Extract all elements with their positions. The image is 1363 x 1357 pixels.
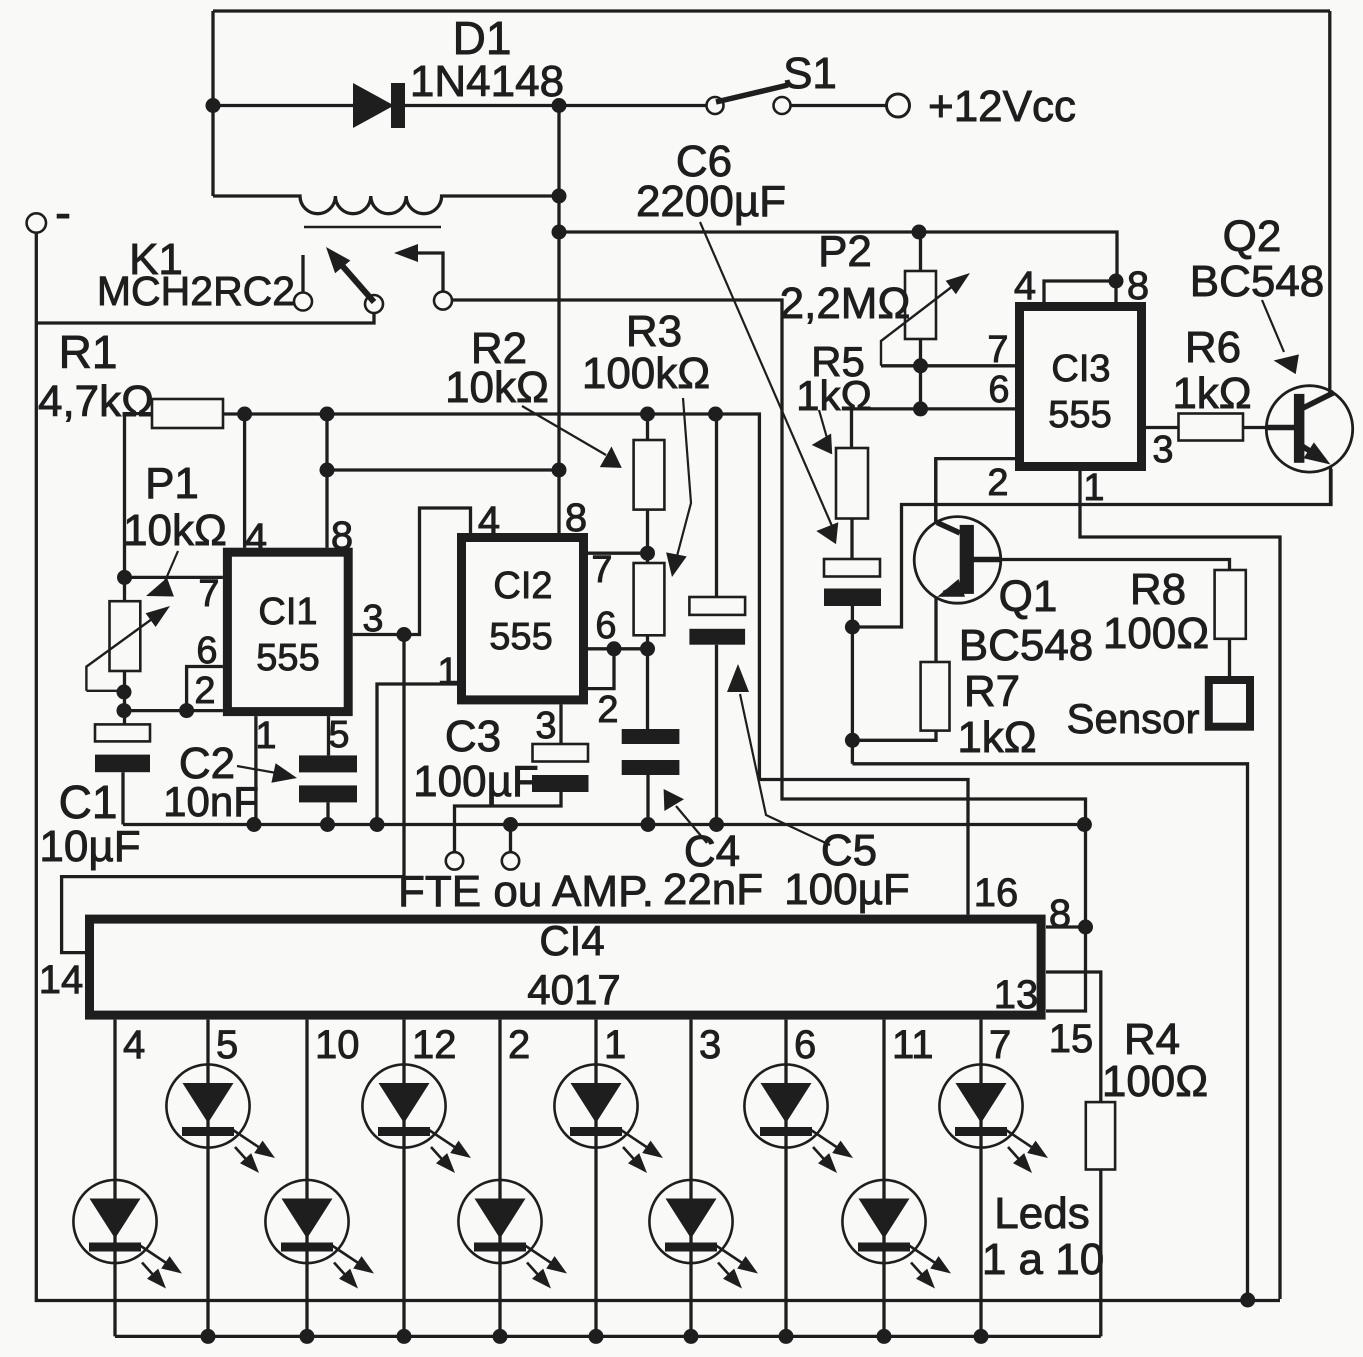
pin 2 of CI2 (597, 689, 618, 731)
pin 6 of CI4 (794, 1023, 816, 1067)
label C3 (445, 712, 501, 761)
node C6 feed junction (552, 225, 567, 240)
wire CI1 pin 8 stub (325, 414, 328, 548)
svg-text:2: 2 (194, 670, 215, 712)
svg-text:CI2: CI2 (493, 565, 552, 607)
wire CI3 pin 7 line (881, 364, 1019, 367)
relay K1 NC contact stub (301, 255, 304, 293)
svg-text:7: 7 (591, 549, 612, 591)
svg-text:10kΩ: 10kΩ (123, 506, 227, 555)
svg-text:FTE ou AMP.: FTE ou AMP. (398, 867, 654, 916)
wire S1 to +12Vcc terminal (791, 104, 887, 107)
svg-text:1 a 10: 1 a 10 (982, 1235, 1104, 1284)
node CI3 pin6 junction (913, 401, 928, 416)
annotation arrow Q2 label to body (1262, 300, 1299, 374)
LED 5 (output 2) (458, 1180, 567, 1289)
svg-text:1kΩ: 1kΩ (957, 713, 1036, 762)
relay K1 NO contact stub with arrow (394, 244, 443, 292)
potentiometer P1 (110, 601, 141, 671)
pin 7 of CI4 (989, 1023, 1011, 1067)
wire vertical bus from D1 cathode down to CI2 pin 8 (557, 106, 560, 534)
label Sensor (1066, 695, 1199, 742)
pin 8 of CI1 (331, 514, 353, 558)
node LED cathode bus junction (779, 1329, 794, 1344)
label CI4 (539, 917, 604, 964)
capacitor C6 plus plate (824, 559, 880, 577)
label S1 (783, 49, 837, 98)
label C6 (676, 137, 732, 186)
wire R8 to sensor (1228, 639, 1231, 676)
LED 6 (output 1) (554, 1064, 663, 1173)
wire R6 to Q2 base (1243, 426, 1294, 429)
wire CI3 pin 2 to Q1 collector (936, 459, 1015, 522)
label Q1 BC548 (959, 621, 1094, 670)
potentiometer P2 (905, 271, 936, 339)
label R4 (1124, 1015, 1180, 1064)
wire C3 bottom to FTE left terminal (455, 792, 562, 852)
resistor R7 (921, 662, 950, 731)
svg-text:C1: C1 (59, 776, 118, 828)
svg-text:1kΩ: 1kΩ (796, 372, 872, 419)
wire sensor net to bottom bus (852, 764, 1247, 1300)
LED 1 (output 4) (73, 1180, 182, 1289)
label Q2 BC548 (1190, 257, 1325, 306)
wire relay common to minus rail (36, 313, 374, 323)
node ground bus to CI4 pin8 junction (1077, 817, 1092, 832)
svg-text:4,7kΩ: 4,7kΩ (38, 377, 154, 426)
wire left drop from top rail to D1 anode and relay coil (211, 11, 214, 196)
capacitor C2 plate 2 (299, 785, 357, 802)
transistor Q1 (914, 517, 1001, 604)
capacitor C5 plus plate (689, 597, 745, 615)
LED 2 (output 5) (166, 1064, 275, 1173)
svg-text:555: 555 (489, 616, 552, 658)
svg-text:100Ω: 100Ω (1102, 1057, 1208, 1106)
pin 7 of CI1 (198, 573, 219, 615)
wire C5 top stub (715, 414, 718, 597)
label minus sign (55, 187, 71, 240)
pin 10 of CI4 (315, 1023, 360, 1067)
wire wiper L to bottom node (86, 690, 124, 692)
annotation arrow C6 label to capacitor (700, 222, 838, 544)
pin 1 of CI2 (437, 651, 458, 693)
svg-text:4: 4 (245, 516, 267, 560)
label C4 (684, 827, 740, 876)
node 470-line right junction (552, 463, 567, 478)
pin 6 of CI1 (196, 630, 217, 672)
wire Q1 collector up (934, 459, 937, 522)
svg-text:P1: P1 (145, 459, 199, 508)
wire CI2 pin 1 to ground (377, 684, 457, 825)
pin 8 of CI4 (1049, 892, 1071, 936)
svg-text:R6: R6 (1185, 323, 1241, 372)
node C5 ground junction (709, 817, 724, 832)
pin 15 of CI4 (1049, 1017, 1094, 1061)
label R1 (59, 326, 118, 378)
wire Q2 collector to top rail (1328, 11, 1331, 393)
node LED cathode bus junction (201, 1329, 216, 1344)
label D1 (453, 12, 512, 64)
wire CI4 output pin 10 column (305, 1020, 308, 1337)
wire R2 bottom to R3 top (646, 510, 649, 563)
resistor R4 (1086, 1102, 1115, 1169)
wire P1 bottom to C1 and pins 6/2 (123, 671, 126, 724)
label Q2 (1223, 212, 1282, 261)
svg-text:100µF: 100µF (413, 757, 539, 806)
label R2 value 10kΩ (445, 363, 549, 412)
wire CI3 pin 4 tie to pin 8 (1044, 281, 1116, 302)
wire CI4 output pin 6 column (784, 1020, 787, 1337)
node P2 top junction (912, 225, 927, 240)
label CI3 (1051, 348, 1110, 390)
annotation arrow C5 label to body (727, 664, 830, 845)
capacitor C1 plus plate (95, 724, 150, 741)
wire C1 bottom to ground bus (121, 772, 124, 824)
capacitor C2 plate 1 (299, 755, 357, 772)
label K1 (129, 235, 183, 284)
wire CI1 pin 1 to ground (254, 716, 257, 824)
wire CI3 pin 8 stub (1114, 281, 1117, 302)
op-amp-timer CI1 555 box (227, 552, 348, 711)
label CI3 555 (1048, 394, 1111, 436)
svg-text:1kΩ: 1kΩ (1172, 369, 1251, 418)
pin 3 of CI2 (535, 705, 556, 747)
wire relay NO contact to ground bus / CI4 pin 8 (452, 300, 1086, 927)
wire C6-feed line to CI3 pins 4-8 (559, 232, 1117, 281)
wire FTE right to ground (509, 825, 512, 853)
label CI2 555 (489, 616, 552, 658)
svg-text:1: 1 (255, 715, 276, 757)
pin 8 of CI3 (1127, 264, 1149, 308)
svg-text:16: 16 (974, 871, 1019, 915)
wire CI1 pin 4 stub (243, 414, 246, 548)
svg-text:CI3: CI3 (1051, 348, 1110, 390)
node R2/R3/CI2-pin7 junction (640, 546, 655, 561)
resistor R2 (634, 440, 665, 510)
svg-text:8: 8 (331, 514, 353, 558)
svg-text:555: 555 (256, 637, 319, 679)
wire R4 bottom to LED bus (1099, 1170, 1102, 1337)
svg-text:10kΩ: 10kΩ (445, 363, 549, 412)
svg-text:5: 5 (216, 1023, 238, 1067)
wire Q1 base to R8 (974, 560, 1230, 571)
label R6 value 1kΩ (1172, 369, 1251, 418)
pin 7 of CI2 (591, 549, 612, 591)
wire P2 bottom stub (919, 339, 922, 409)
wire CI4 output pin 2 column (498, 1020, 501, 1337)
label Leds 1 a 10 (982, 1235, 1104, 1284)
node P1 bottom / pin2 junction (117, 703, 132, 718)
wire CI4 pin 15 to R4 (1046, 972, 1101, 1102)
svg-text:100kΩ: 100kΩ (582, 349, 710, 398)
svg-text:C3: C3 (445, 712, 501, 761)
svg-text:1: 1 (1083, 467, 1104, 509)
svg-text:6: 6 (595, 605, 616, 647)
pin 3 of CI4 (699, 1023, 721, 1067)
wire CI4 pin 8 stub (1046, 925, 1086, 928)
capacitor C3 minus plate (532, 775, 589, 792)
LED 7 (output 3) (649, 1180, 758, 1289)
node CI3 pin 8 junction (1109, 274, 1124, 289)
svg-text:R1: R1 (59, 326, 118, 378)
label C1 (59, 776, 118, 828)
switch S1 lever (716, 85, 788, 102)
pin 6 of CI3 (988, 369, 1009, 411)
resistor R8 (1215, 570, 1246, 639)
annotation arrow P1 label to body (146, 551, 178, 597)
resistor R6 (1179, 414, 1244, 441)
svg-text:100µF: 100µF (784, 865, 910, 914)
wire C5 bottom to ground (715, 645, 718, 825)
svg-text:7: 7 (198, 573, 219, 615)
wire top +12V rail (213, 9, 1330, 12)
pin 3 of CI1 (362, 598, 383, 640)
svg-text:1N4148: 1N4148 (410, 57, 564, 106)
label R3 value 100kΩ (582, 349, 710, 398)
label P2 (818, 227, 872, 276)
svg-text:6: 6 (988, 369, 1009, 411)
svg-text:8: 8 (1049, 892, 1071, 936)
capacitor C5 minus plate (689, 629, 745, 645)
LED 4 (output 12) (362, 1064, 471, 1173)
svg-text:4: 4 (1014, 264, 1036, 308)
svg-text:2: 2 (597, 689, 618, 731)
label C4 value 22nF (663, 865, 763, 914)
label P1 (145, 459, 199, 508)
wire D1 net from anode junction to S1 (213, 104, 707, 107)
node LED cathode bus junction (300, 1329, 315, 1344)
svg-text:Q1: Q1 (999, 572, 1058, 621)
pin 2 of CI3 (987, 462, 1008, 504)
svg-text:7: 7 (989, 1023, 1011, 1067)
switch S1 left contact (707, 97, 724, 114)
label R5 (811, 338, 865, 385)
node coil right junction (552, 189, 567, 204)
capacitor C3 plus plate (533, 744, 589, 762)
wire pins 6-2 of CI1 to P1 bottom (124, 709, 223, 712)
wire CI1 pin 7 to P1 top node (125, 576, 223, 579)
node CI1 pin3 junction (397, 627, 412, 642)
svg-text:10: 10 (315, 1023, 360, 1067)
svg-text:2: 2 (987, 462, 1008, 504)
label P1 value 10kΩ (123, 506, 227, 555)
node C6 bottom junction (845, 620, 860, 635)
svg-text:3: 3 (535, 705, 556, 747)
label C1 value 10µF (39, 822, 140, 871)
node CI4 pin 8 junction (1078, 920, 1093, 935)
svg-text:MCH2RC2: MCH2RC2 (97, 268, 295, 314)
wire CI2 pin 3 to C3 (559, 704, 562, 744)
label R4 value 100Ω (1102, 1057, 1208, 1106)
node R7 bottom junction (845, 733, 860, 748)
svg-text:P2: P2 (818, 227, 872, 276)
wire C6 bottom to Q2 emitter line (852, 469, 1331, 627)
relay K1 NC contact (294, 293, 312, 311)
label R8 (1130, 565, 1186, 614)
svg-text:BC548: BC548 (1190, 257, 1325, 306)
node CI1 pin1 ground junction (247, 817, 262, 832)
svg-text:10nF: 10nF (163, 778, 259, 825)
pin 4 of CI1 (245, 516, 267, 560)
node CI1 pin6 jog junction (179, 703, 194, 718)
pin 14 of CI4 (39, 958, 84, 1002)
diode D1 (353, 83, 405, 128)
svg-text:8: 8 (1127, 264, 1149, 308)
node CI1 pin8 rail junction (320, 407, 335, 422)
label Q1 (999, 572, 1058, 621)
capacitor C6 minus plate (824, 589, 881, 607)
node LED cathode bus junction (974, 1329, 989, 1344)
label CI4 4017 (527, 966, 620, 1013)
wire minus rail left border down to bottom bus (36, 233, 1280, 1301)
label +12Vcc (928, 82, 1076, 131)
label C3 value 100µF (413, 757, 539, 806)
label R5 value 1kΩ (796, 372, 872, 419)
svg-text:Q2: Q2 (1223, 212, 1282, 261)
svg-text:1: 1 (437, 651, 458, 693)
svg-text:R7: R7 (964, 667, 1020, 716)
pin 6 of CI2 (595, 605, 616, 647)
label R7 (964, 667, 1020, 716)
counter CI4 4017 box (90, 919, 1042, 1015)
node FTE right ground junction (503, 817, 518, 832)
pin 1 of CI1 (255, 715, 276, 757)
pin 5 of CI1 (328, 714, 349, 756)
svg-text:12: 12 (412, 1023, 457, 1067)
pin 2 of CI4 (508, 1023, 530, 1067)
label R1 value 4,7kΩ (38, 377, 154, 426)
pin 4 of CI3 (1014, 264, 1036, 308)
svg-text:2: 2 (508, 1023, 530, 1067)
potentiometer P2 wiper arrow (881, 273, 970, 366)
LED 9 (output 11) (842, 1180, 951, 1289)
terminal minus (27, 213, 46, 232)
switch S1 right contact (774, 97, 791, 114)
wire CI2 pin 2 jog (588, 649, 614, 689)
svg-text:S1: S1 (783, 49, 837, 98)
pin 8 of CI2 (565, 496, 587, 540)
node P2 bottom / CI3 pin7 junction (913, 358, 928, 373)
node C4 ground junction (641, 817, 656, 832)
label P2 value 2,2MΩ (780, 279, 911, 328)
wire 470 cross line to CI2 pin8 bus (327, 468, 559, 471)
pin 16 of CI4 (974, 871, 1019, 915)
pin 2 of CI1 (194, 670, 215, 712)
svg-text:2200µF: 2200µF (636, 177, 786, 226)
wire R3 bottom to C4 (646, 635, 649, 729)
wire pin3 jog up to CI2 pin 4 (404, 508, 471, 635)
label C5 (821, 826, 877, 875)
wire CI4 output pin 7 column (979, 1020, 982, 1337)
svg-text:22nF: 22nF (663, 865, 763, 914)
relay K1 armature lever (326, 247, 374, 302)
annotation arrow C4 label to body (664, 789, 707, 843)
svg-text:4017: 4017 (527, 966, 620, 1013)
label C2 value 10nF (163, 778, 259, 825)
annotation arrow R3 label to body (666, 398, 691, 577)
svg-text:10µF: 10µF (39, 822, 140, 871)
label C2 (179, 739, 235, 788)
svg-text:100Ω: 100Ω (1103, 609, 1209, 658)
wire CI4 output pin 11 column (882, 1020, 885, 1337)
node LED cathode bus junction (493, 1329, 508, 1344)
svg-text:14: 14 (39, 958, 84, 1002)
op-amp-timer CI3 555 box (1020, 307, 1142, 467)
label R6 (1185, 323, 1241, 372)
node LED cathode bus junction (589, 1329, 604, 1344)
pin 3 of CI3 (1152, 429, 1173, 471)
node R3 bottom / pin6 junction (640, 641, 655, 656)
wire C6 bottom down to R7 bottom (851, 627, 854, 764)
label MCH2RC2 (97, 268, 295, 314)
svg-text:Sensor: Sensor (1066, 695, 1199, 742)
svg-text:3: 3 (1152, 429, 1173, 471)
pin 11 of CI4 (892, 1023, 934, 1067)
node C2 ground junction (320, 817, 335, 832)
terminal +12Vcc (887, 94, 910, 117)
wire C2 bottom to ground (326, 802, 329, 824)
label C6 value 2200µF (636, 177, 786, 226)
relay K1 coil (213, 196, 559, 214)
node CI2 pin6 jog junction (607, 641, 622, 656)
svg-text:4: 4 (478, 499, 500, 543)
pin 1 of CI3 (1083, 467, 1104, 509)
node CI1 pin4 rail junction (237, 407, 252, 422)
svg-text:6: 6 (794, 1023, 816, 1067)
node R1/P1/CI1-pin7 junction (117, 570, 132, 585)
svg-text:R8: R8 (1130, 565, 1186, 614)
svg-text:11: 11 (892, 1023, 934, 1067)
pin 13 of CI4 (994, 973, 1039, 1017)
svg-text:-: - (55, 187, 71, 240)
svg-text:4: 4 (123, 1023, 145, 1067)
label R8 value 100Ω (1103, 609, 1209, 658)
wire C6 bottom stub (851, 606, 854, 627)
LED 10 (output 7) (939, 1064, 1048, 1173)
label CI2 (493, 565, 552, 607)
wire CI4 output pin 12 column (402, 1020, 405, 1337)
node LED cathode bus junction (397, 1329, 412, 1344)
svg-text:15: 15 (1049, 1017, 1094, 1061)
wire CI4 output pin 5 column (206, 1020, 209, 1337)
wire R7 bottom tie (852, 731, 936, 741)
svg-text:2,2MΩ: 2,2MΩ (780, 279, 911, 328)
wire CI1 pin 6 jog (187, 667, 223, 711)
wire C4 bottom to ground (646, 775, 649, 825)
svg-text:1: 1 (604, 1023, 626, 1067)
node C5 top rail junction (708, 407, 723, 422)
node R2 top rail junction (640, 407, 655, 422)
pin 4 of CI2 (478, 499, 500, 543)
svg-text:+12Vcc: +12Vcc (928, 82, 1076, 131)
node CI2 pin1 ground junction (370, 817, 385, 832)
wire CI3 pin 6 line to R5 top (852, 409, 1020, 448)
wire CI1 pin 3 out (353, 633, 404, 636)
pin 12 of CI4 (412, 1023, 457, 1067)
wire CI2 pin 7 out (588, 552, 648, 555)
LED 3 (output 10) (265, 1180, 374, 1289)
wire CI1 pin 5 to C2 (327, 716, 330, 755)
wire pin3 down to CI4 pin 14 (62, 635, 404, 953)
wire CI4 pin 13 tie (1046, 927, 1086, 1011)
wire main ground bus (123, 823, 1084, 826)
capacitor C4 plate 1 (622, 729, 680, 744)
wire main V+ rail (R1 right) with drop to CI4 pin 16 (223, 414, 968, 915)
pin 7 of CI3 (987, 329, 1008, 371)
svg-text:CI4: CI4 (539, 917, 604, 964)
pin 5 of CI4 (216, 1023, 238, 1067)
wire R5 bottom to C6 (850, 519, 853, 560)
